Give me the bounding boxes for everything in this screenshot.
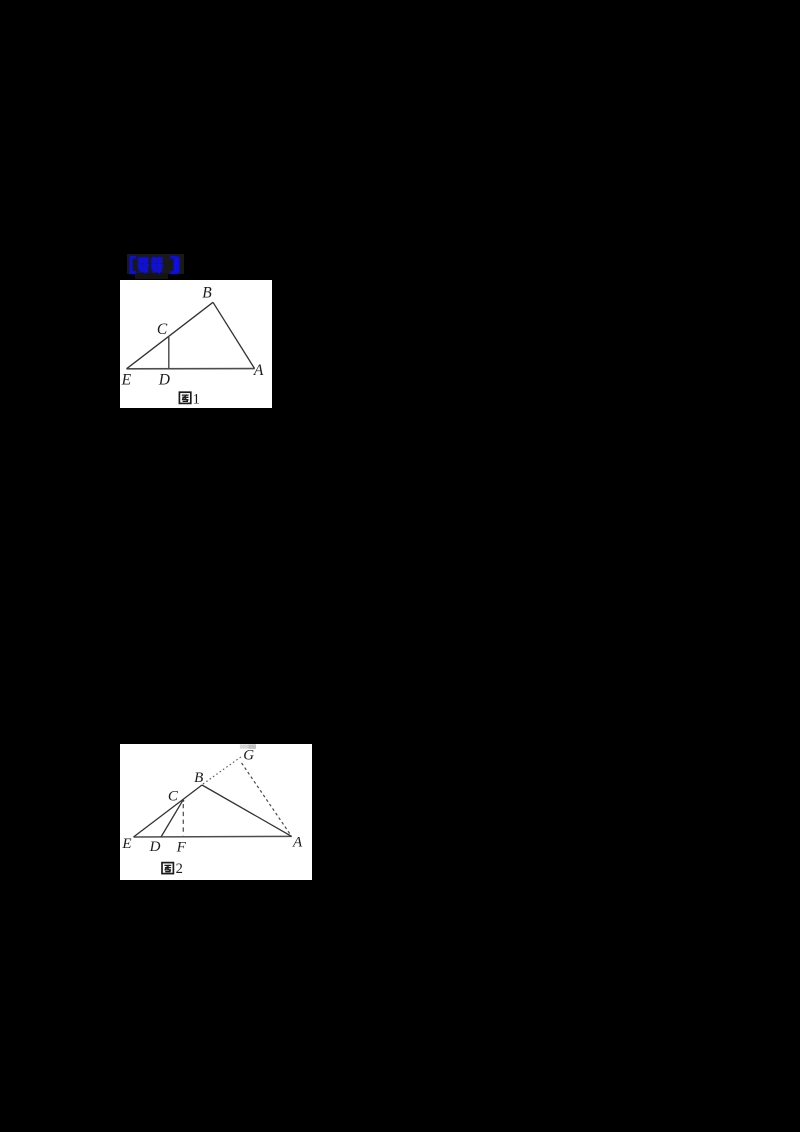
svg-text:A: A	[253, 362, 264, 379]
wire segment CD (vertical)	[168, 337, 170, 369]
caption glyph 图	[179, 392, 190, 403]
svg-text:C: C	[168, 788, 179, 804]
dotted segment BG	[203, 757, 241, 784]
char 1	[137, 257, 149, 273]
blue heading label (blurred CJK-like blob)	[120, 248, 192, 282]
dashed segment GA	[242, 763, 291, 836]
svg-text:1: 1	[193, 391, 200, 407]
svg-text:D: D	[158, 371, 170, 388]
figure 1 white panel	[120, 280, 272, 408]
wire segment EA (base line)	[134, 835, 292, 838]
figure 2 white panel	[120, 744, 312, 880]
svg-text:B: B	[194, 770, 203, 786]
wire segment BA	[213, 302, 255, 368]
right bracket	[170, 257, 175, 272]
char 2	[151, 257, 163, 274]
svg-text:E: E	[121, 372, 132, 389]
wire segment DC	[161, 800, 183, 837]
wire segment EA (base line)	[127, 368, 255, 370]
scanner smudge near G	[240, 744, 249, 748]
wire segment BA	[202, 785, 292, 836]
blue heading label backing smudge	[127, 254, 184, 274]
wire segment EB	[134, 785, 203, 837]
svg-text:2: 2	[176, 861, 183, 877]
svg-text:B: B	[202, 285, 212, 302]
blue heading label lower smudge	[135, 273, 168, 279]
svg-text:D: D	[149, 839, 161, 855]
svg-text:G: G	[243, 748, 254, 764]
svg-text:F: F	[176, 840, 187, 856]
svg-text:C: C	[157, 321, 168, 338]
svg-text:E: E	[121, 836, 131, 852]
left bracket	[131, 257, 136, 272]
node C junction dot	[182, 800, 184, 802]
caption glyph 图	[162, 863, 173, 874]
wire segment EB	[127, 302, 214, 369]
svg-text:A: A	[292, 834, 303, 850]
dashed segment CF	[182, 804, 184, 836]
